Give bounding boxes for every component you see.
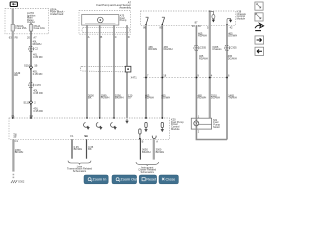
svg-text:Module: Module bbox=[171, 127, 180, 131]
svg-text:Module: Module bbox=[237, 17, 246, 21]
toolbar buttons bbox=[84, 175, 178, 184]
pin labels below CCM bbox=[143, 21, 233, 30]
Reset button bbox=[139, 175, 157, 184]
svg-text:C1: C1 bbox=[15, 139, 19, 143]
svg-text:0.35 RD: 0.35 RD bbox=[33, 55, 43, 59]
svg-text:C305: C305 bbox=[200, 46, 207, 50]
svg-text:Schematics: Schematics bbox=[140, 170, 154, 174]
svg-text:S115: S115 bbox=[23, 100, 30, 104]
wire label bbox=[30, 104, 43, 113]
wire below fuse F60UA bbox=[12, 31, 14, 118]
ECM control wire C bbox=[139, 139, 141, 159]
brace B caption bbox=[138, 165, 156, 174]
svg-text:RD/WH: RD/WH bbox=[33, 42, 42, 46]
brace A bbox=[68, 161, 91, 165]
svg-text:DG/WH: DG/WH bbox=[164, 47, 173, 51]
ECM signal wire B bbox=[86, 139, 88, 158]
svg-text:Pump: Pump bbox=[120, 18, 127, 22]
in-line connector on wire 3 bbox=[194, 45, 207, 50]
svg-text:1B: 1B bbox=[34, 63, 37, 67]
fuse F60UA bbox=[11, 24, 27, 31]
ECM low reference wire A bbox=[71, 139, 73, 158]
svg-text:DG/WH: DG/WH bbox=[228, 56, 237, 60]
svg-text:Zoom Out: Zoom Out bbox=[120, 178, 138, 182]
svg-text:BK: BK bbox=[88, 147, 92, 151]
engine control module dashed box bbox=[9, 118, 170, 139]
chassis ground symbol G302 bbox=[11, 180, 25, 184]
svg-text:Motor: Motor bbox=[213, 125, 220, 129]
CCM wire labels bbox=[148, 45, 157, 51]
pin labels above ECM bottom bbox=[70, 134, 88, 138]
Close button bbox=[159, 175, 178, 184]
brace B bbox=[136, 162, 159, 166]
wire F6UA bbox=[30, 23, 32, 24]
wire B label bbox=[88, 145, 94, 151]
svg-text:Reset: Reset bbox=[146, 178, 157, 182]
assembly title bbox=[96, 0, 131, 9]
pin ticks below assembly bbox=[88, 35, 130, 39]
wire labels below X471 bbox=[145, 93, 154, 99]
pin labels below ECM bottom bbox=[142, 139, 159, 143]
ground wire label bbox=[15, 148, 24, 154]
svg-text:C2: C2 bbox=[35, 47, 39, 51]
Zoom In button bbox=[84, 175, 108, 184]
side toolbar icon: zoom window 1 bbox=[255, 2, 263, 10]
side toolbar icon: forward arrow bbox=[255, 36, 264, 44]
sender line inside box bbox=[85, 22, 115, 24]
short arrow under wire 4 bbox=[126, 119, 128, 123]
svg-text:RD/WH: RD/WH bbox=[148, 47, 157, 51]
wire label bbox=[33, 89, 43, 95]
svg-text:DG/WH: DG/WH bbox=[211, 96, 220, 100]
wire label 0.35 RD/WH bbox=[33, 53, 43, 59]
side toolbar icon: pan arrow bbox=[255, 23, 264, 30]
harness connector dashed line X471 bbox=[131, 74, 230, 80]
connector label mid bbox=[212, 45, 222, 51]
U pin symbol on ECM bottom bbox=[152, 135, 157, 139]
svg-text:B: B bbox=[101, 35, 103, 39]
fuse block title text bbox=[50, 7, 65, 16]
wire C label bbox=[142, 148, 151, 154]
ground wire dashes bbox=[12, 174, 14, 178]
svg-text:DG/WH: DG/WH bbox=[161, 96, 170, 100]
in-line connector on wire 5 bbox=[224, 45, 237, 50]
svg-text:E1: E1 bbox=[85, 134, 89, 138]
wire label RD/WH bbox=[33, 40, 42, 46]
svg-text:C170: C170 bbox=[35, 83, 42, 87]
brace A caption bbox=[67, 164, 93, 173]
wire D label bbox=[156, 148, 165, 154]
pump wire 1 bbox=[86, 25, 88, 118]
CCM wire 4 (thick) bbox=[209, 11, 211, 118]
CCM wire 1 bbox=[145, 25, 147, 118]
chassis control module dashed box bbox=[141, 11, 236, 25]
CCM wire 2 bbox=[161, 25, 163, 118]
fuse block X50A dashed box bbox=[5, 9, 49, 34]
svg-text:Chassis: Chassis bbox=[212, 47, 222, 51]
hook arrow under wire 1 bbox=[84, 123, 90, 130]
svg-text:RD/WH: RD/WH bbox=[198, 96, 207, 100]
switch contact 1 bbox=[145, 17, 148, 25]
connector oval inside assembly bbox=[82, 28, 130, 33]
in-line connector C2 on wire bbox=[28, 46, 38, 51]
pump label bbox=[120, 14, 127, 23]
svg-text:DG/WH: DG/WH bbox=[228, 34, 237, 38]
ECM label bbox=[171, 118, 184, 131]
wire labels below connectors bbox=[199, 54, 208, 60]
side toolbar icon: zoom window 2 bbox=[255, 13, 263, 21]
side toolbar icon: back arrow bbox=[255, 47, 264, 55]
svg-text:G302: G302 bbox=[18, 180, 25, 184]
CCM label bbox=[237, 10, 247, 21]
wire F60UA supply (thick, highlighted) bbox=[12, 9, 14, 25]
fuse F6UA bbox=[29, 24, 45, 31]
pin 87 dot and off-page arrow loop bbox=[209, 11, 215, 22]
svg-text:Close: Close bbox=[166, 178, 176, 182]
in-line connector oval X405 bbox=[80, 66, 131, 72]
CCM wire 5 bbox=[226, 25, 228, 139]
wire A label bbox=[74, 145, 83, 151]
svg-text:Underhood: Underhood bbox=[50, 12, 64, 16]
pin dots on ECM top edge bbox=[12, 117, 163, 119]
svg-text:BK/WH: BK/WH bbox=[142, 150, 151, 154]
svg-text:Assembly: Assembly bbox=[119, 6, 131, 10]
motor box labels bbox=[198, 115, 200, 134]
coil under wire 5 bbox=[145, 122, 147, 131]
svg-text:C: C bbox=[115, 35, 117, 39]
switch contact 2 bbox=[162, 17, 165, 25]
splice S115 bbox=[23, 100, 36, 104]
svg-text:A7: A7 bbox=[33, 35, 37, 39]
motor return wire bbox=[196, 129, 227, 139]
svg-text:0.35 RD: 0.35 RD bbox=[33, 72, 43, 76]
hook arrow under wire 2 bbox=[96, 123, 102, 130]
coil to ground pin inside ECM bbox=[139, 129, 141, 140]
svg-text:BK/WH: BK/WH bbox=[15, 150, 24, 154]
svg-text:C2: C2 bbox=[30, 114, 34, 118]
pump wire 4 bbox=[126, 25, 128, 118]
svg-text:C305: C305 bbox=[230, 46, 237, 50]
svg-text:RD: RD bbox=[14, 73, 18, 77]
ECM feedback wire D (thick) bbox=[153, 139, 155, 159]
motor symbol bbox=[194, 118, 212, 129]
wire below fuse F6UA bbox=[30, 31, 32, 118]
svg-text:A: A bbox=[88, 35, 90, 39]
svg-text:RD/WH: RD/WH bbox=[199, 56, 208, 60]
fuel pump assembly dashed box bbox=[79, 11, 131, 35]
module entry labels inside ECM left bbox=[13, 132, 17, 138]
svg-text:D: D bbox=[128, 35, 130, 39]
svg-text:TN/WH: TN/WH bbox=[228, 96, 237, 100]
hook arrow under wire 3 bbox=[111, 123, 117, 130]
ground wire from ECM bbox=[12, 139, 14, 171]
pump wire 2 bbox=[99, 25, 101, 118]
svg-text:B: B bbox=[142, 139, 144, 143]
splice S110 bbox=[24, 63, 38, 69]
svg-text:X2: X2 bbox=[198, 24, 202, 28]
svg-text:X1: X1 bbox=[11, 114, 15, 118]
off-page arrow at pin 42 bbox=[226, 18, 231, 25]
svg-text:X471: X471 bbox=[131, 76, 138, 80]
svg-text:S110: S110 bbox=[24, 63, 31, 67]
svg-text:PU/WH: PU/WH bbox=[101, 96, 110, 100]
pump wire 3 bbox=[113, 25, 115, 118]
svg-text:A: A bbox=[156, 139, 158, 143]
svg-text:GY: GY bbox=[128, 96, 132, 100]
Zoom Out button bbox=[112, 175, 138, 184]
svg-text:0.35 RD: 0.35 RD bbox=[33, 91, 43, 95]
svg-text:BK/WH: BK/WH bbox=[115, 96, 124, 100]
relay output text block bbox=[27, 11, 36, 24]
svg-text:Zoom In: Zoom In bbox=[92, 178, 106, 182]
fuel pump motor box bbox=[191, 118, 211, 129]
svg-text:RD/WH: RD/WH bbox=[145, 96, 154, 100]
svg-text:Schematics: Schematics bbox=[73, 169, 87, 173]
wire label below splice bbox=[30, 69, 43, 76]
svg-text:BK: BK bbox=[88, 96, 92, 100]
svg-text:BK/WH: BK/WH bbox=[74, 147, 83, 151]
svg-text:0.35 RD: 0.35 RD bbox=[33, 109, 43, 113]
svg-text:BK/WH: BK/WH bbox=[156, 150, 165, 154]
coil under wire 6 bbox=[161, 122, 163, 131]
pump wire labels bbox=[88, 93, 94, 99]
svg-text:RD/WH: RD/WH bbox=[198, 34, 207, 38]
back arrow icon (top-left toolbar) bbox=[10, 2, 17, 7]
fuel pump motor circle bbox=[98, 17, 104, 23]
in-line connector C170 on wire bbox=[28, 83, 41, 88]
svg-text:Fuse 10A: Fuse 10A bbox=[34, 26, 45, 30]
wire label 1A49 RD bbox=[14, 71, 21, 77]
fuel pump inner box bbox=[82, 15, 119, 26]
motor label text bbox=[213, 118, 220, 129]
svg-text:Fuse 25A: Fuse 25A bbox=[15, 26, 26, 30]
svg-text:1B: 1B bbox=[13, 135, 16, 139]
CCM wire 3 bbox=[195, 25, 197, 118]
